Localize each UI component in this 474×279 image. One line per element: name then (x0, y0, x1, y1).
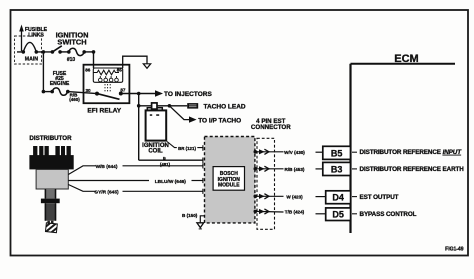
svg-text:B (150): B (150) (182, 213, 198, 218)
svg-text:LINKS: LINKS (28, 32, 44, 38)
svg-text:CONNECTOR: CONNECTOR (251, 124, 291, 131)
svg-text:TO I/P TACHO: TO I/P TACHO (198, 117, 241, 124)
svg-text:MODULE: MODULE (218, 182, 240, 188)
svg-text:ENGINE: ENGINE (50, 81, 70, 87)
svg-text:W/V (430): W/V (430) (284, 150, 305, 155)
svg-text:BR (121): BR (121) (178, 146, 196, 151)
svg-text:D5: D5 (332, 210, 344, 220)
svg-text:D4: D4 (332, 193, 344, 203)
svg-text:T/B (424): T/B (424) (285, 209, 305, 214)
svg-text:BYPASS CONTROL: BYPASS CONTROL (360, 211, 417, 218)
svg-text:DISTRIBUTOR REFERENCE INPUT: DISTRIBUTOR REFERENCE INPUT (360, 149, 463, 156)
svg-text:LBLU/W (646): LBLU/W (646) (155, 179, 187, 185)
svg-text:B5: B5 (331, 148, 343, 158)
svg-text:EFI RELAY: EFI RELAY (87, 107, 121, 114)
svg-text:COIL: COIL (148, 149, 163, 155)
svg-text:GY/R (645): GY/R (645) (94, 190, 119, 196)
svg-text:DISTRIBUTOR REFERENCE EARTH: DISTRIBUTOR REFERENCE EARTH (360, 166, 465, 173)
svg-text:85: 85 (117, 68, 123, 73)
svg-text:TO INJECTORS: TO INJECTORS (164, 91, 212, 98)
svg-text:R/B (453): R/B (453) (285, 167, 305, 172)
svg-text:86: 86 (85, 68, 91, 73)
svg-text:MAIN: MAIN (25, 57, 39, 63)
svg-text:(460): (460) (69, 97, 80, 102)
svg-text:SWITCH: SWITCH (57, 38, 86, 47)
svg-text:30: 30 (85, 88, 91, 93)
svg-text:W/B (644): W/B (644) (96, 164, 118, 170)
svg-text:#10: #10 (67, 57, 76, 63)
svg-text:FIG1-49: FIG1-49 (445, 247, 464, 253)
svg-text:B: B (163, 155, 166, 160)
svg-text:TACHO LEAD: TACHO LEAD (204, 104, 246, 111)
svg-text:W (423): W (423) (286, 194, 303, 199)
svg-text:DISTRIBUTOR: DISTRIBUTOR (29, 135, 72, 142)
svg-text:B3: B3 (331, 164, 343, 174)
svg-text:EST OUTPUT: EST OUTPUT (360, 194, 399, 201)
